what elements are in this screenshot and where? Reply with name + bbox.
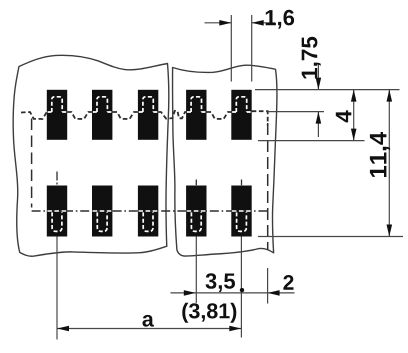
dashed line crossing bottom pad 1 [47, 210, 66, 212]
dashed contact-comb outline, top row [21, 111, 268, 126]
dimension 1,6 : leader right [252, 22, 276, 24]
dashed contact arch in top pad 3 [139, 97, 158, 112]
bottom solder pad 2 [92, 186, 112, 237]
dimension 1,6 : leader left [205, 22, 232, 24]
dashed contact arch in top pad 4 [187, 97, 206, 112]
dashed contact arch in top pad 1 [48, 97, 67, 112]
bottom solder pad 4 [186, 186, 206, 237]
extension line pad5 right edge (1,6) [251, 15, 253, 82]
dimension line a / (3,81) [57, 328, 241, 330]
dimension 4 : double arrow [353, 90, 355, 141]
centerline above bottom pad 1 [56, 172, 58, 185]
dot terminator at pad col 5 [240, 288, 244, 292]
extension line housing right edge (2) [267, 268, 269, 304]
top solder pad 3 [138, 90, 158, 140]
label 1,6 [266, 10, 294, 29]
label a [143, 315, 154, 327]
dashed contact cup in bottom pad 1 [52, 212, 62, 231]
top solder pad 4 [186, 90, 206, 140]
dashed line crossing bottom pad 4 [187, 210, 206, 212]
extension line pad col 4 (3,5) [195, 237, 197, 304]
right PCB panel outline [173, 65, 277, 256]
dimension 1,75 : upper leader with down arrow [317, 64, 319, 90]
extension line bottom pad bottom (right) [258, 236, 403, 238]
top solder pad 1 [47, 90, 67, 140]
extension line comb level (right) [268, 111, 325, 113]
top solder pad 5 [231, 90, 251, 140]
dash-dot line through bottom pads [32, 210, 270, 212]
label 1,75 (rotated) [302, 37, 321, 79]
dashed contact cup in bottom pad 2 [97, 212, 107, 231]
dimension line 3,5 / 2 [171, 292, 295, 294]
dashed contact arch in top pad 5 [232, 97, 251, 112]
bottom solder pad 3 [138, 186, 158, 237]
top solder pad 2 [92, 90, 112, 140]
dimension 11,4 : double arrow [388, 90, 390, 237]
label 3,5 [206, 273, 236, 292]
dashed contact arch in top pad 2 [93, 97, 112, 112]
left PCB panel outline [13, 55, 169, 256]
extension line pad5 left edge (1,6) [230, 15, 232, 82]
label (3,81) [182, 303, 236, 323]
extension line top pad bottom (right) [258, 140, 365, 142]
dashed contact cup in bottom pad 3 [143, 212, 153, 231]
dashed line crossing bottom pad 3 [139, 210, 158, 212]
bottom solder pad 5 [231, 186, 251, 237]
dashed line crossing bottom pad 5 [232, 210, 251, 212]
label 4 (rotated) [336, 110, 352, 122]
label 2 [283, 275, 293, 290]
centerline above bottom pad 4 [195, 180, 197, 186]
extension line pad col 1 (a) [56, 237, 58, 340]
dashed housing outline, right edge [267, 123, 269, 250]
label 11,4 (rotated) [370, 132, 390, 177]
extension line pad top edge (right) [255, 89, 400, 91]
extension line pad col 5 (3,5 / 3,81) [240, 237, 242, 338]
dashed line crossing bottom pad 2 [93, 210, 112, 212]
dashed contact cup in bottom pad 5 [237, 212, 247, 231]
dashed contact cup in bottom pad 4 [191, 212, 201, 231]
bottom solder pad 1 [47, 186, 67, 237]
centerline above bottom pad 5 [241, 180, 243, 186]
dimension 1,75 : lower leader with up arrow [317, 112, 319, 137]
dashed housing outline, left edge [31, 119, 33, 208]
